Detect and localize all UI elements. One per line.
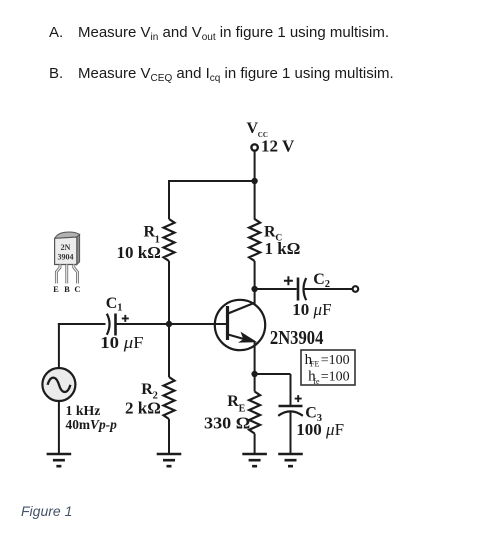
wire collector node to C2 <box>255 288 297 290</box>
capacitor C2 curved plate <box>304 278 307 300</box>
junction base <box>166 321 172 327</box>
svg-text:2 kΩ: 2 kΩ <box>125 398 161 417</box>
wire RE to ground <box>254 434 256 455</box>
svg-text:C: C <box>313 271 325 288</box>
svg-text:2N3904: 2N3904 <box>270 328 324 349</box>
svg-text:40mVp-p: 40mVp-p <box>66 417 118 432</box>
svg-text:FE: FE <box>310 360 319 369</box>
AC source sine wave <box>48 378 71 392</box>
svg-text:1 kHz: 1 kHz <box>66 403 101 418</box>
svg-text:3904: 3904 <box>58 253 74 262</box>
plus sign C3 <box>295 395 302 402</box>
wire RC bottom to collector node <box>254 261 256 289</box>
package right side <box>77 234 80 264</box>
emitter arrow <box>238 332 257 343</box>
svg-text:B: B <box>64 284 70 294</box>
wire down to C3 <box>290 374 292 406</box>
svg-text:1 kΩ: 1 kΩ <box>265 239 301 258</box>
transistor base bar <box>226 306 229 340</box>
svg-text:2N: 2N <box>61 243 71 252</box>
junction collector <box>251 286 257 292</box>
collector diagonal <box>228 303 255 314</box>
collector vertical wire <box>254 288 256 304</box>
instruction line B <box>49 65 394 82</box>
svg-text:1: 1 <box>117 303 122 314</box>
svg-text:R: R <box>141 381 153 398</box>
capacitor C3 plate + <box>279 405 303 408</box>
package front face <box>55 237 77 265</box>
ground (RE) <box>242 454 267 466</box>
wire C3 to ground <box>290 412 292 454</box>
capacitor C1 plate + <box>114 314 117 336</box>
capacitor C1 curved plate <box>107 314 110 335</box>
TO-92 package drawing <box>53 232 80 294</box>
wire C1 to base <box>116 323 227 325</box>
resistor RE <box>249 392 260 434</box>
wire junction to RC top <box>254 181 256 220</box>
svg-text:E: E <box>53 284 59 294</box>
svg-text:330 Ω: 330 Ω <box>204 413 250 432</box>
package top cap <box>55 232 80 238</box>
svg-text:10 kΩ: 10 kΩ <box>117 243 161 262</box>
svg-text:C: C <box>106 295 118 312</box>
wire R1 bottom to base junction <box>168 261 170 324</box>
capacitor C2 plate + <box>297 278 300 301</box>
svg-text:R: R <box>227 393 239 410</box>
svg-text:C: C <box>74 284 80 294</box>
svg-text:10 μF: 10 μF <box>100 333 143 352</box>
svg-text:=100: =100 <box>321 370 350 385</box>
instruction line A <box>49 24 389 41</box>
svg-text:=100: =100 <box>321 353 350 368</box>
junction emitter <box>251 371 257 377</box>
wire base junction down to R2 <box>168 324 170 377</box>
svg-text:2: 2 <box>325 279 330 290</box>
ground (R2) <box>157 454 182 466</box>
svg-text:100 μF: 100 μF <box>296 420 344 439</box>
wire emitter node to C3 branch <box>255 373 291 375</box>
ground (source) <box>47 454 72 466</box>
capacitor C3 curved plate <box>278 411 303 415</box>
transistor Q1 circle <box>215 300 265 350</box>
resistor R2 <box>164 377 175 419</box>
output terminal <box>353 286 359 292</box>
ground (C3) <box>278 454 303 466</box>
leg E <box>56 265 60 284</box>
AC source V1 <box>42 368 75 401</box>
junction top <box>251 178 257 184</box>
emitter diagonal <box>228 335 251 342</box>
Vcc terminal <box>251 144 257 150</box>
svg-text:C: C <box>305 405 317 422</box>
wire source to ground <box>58 401 60 455</box>
wire input down to source <box>58 323 60 369</box>
svg-text:10 μF: 10 μF <box>292 300 331 319</box>
wire input corner to C1 <box>58 323 106 325</box>
wire C2 to output terminal <box>304 288 352 290</box>
resistor RC <box>249 219 260 261</box>
plus sign C1 <box>122 315 129 322</box>
plus sign C2 <box>284 276 293 285</box>
svg-text:12 V: 12 V <box>261 137 295 156</box>
h parameters box <box>301 350 355 385</box>
leg B <box>65 265 68 284</box>
emitter vertical wire <box>254 342 256 375</box>
wire emitter node down to RE <box>254 374 256 392</box>
leg C <box>74 265 78 284</box>
svg-text:fe: fe <box>313 377 320 386</box>
wire down to R1 top <box>168 180 170 219</box>
caption Figure 1 <box>21 503 72 519</box>
wire top horizontal to R1 branch <box>169 180 255 182</box>
wire R2 to ground <box>168 419 170 454</box>
wire Vcc to top junction <box>254 151 256 181</box>
resistor R1 <box>164 219 175 261</box>
svg-text:V: V <box>247 120 259 137</box>
